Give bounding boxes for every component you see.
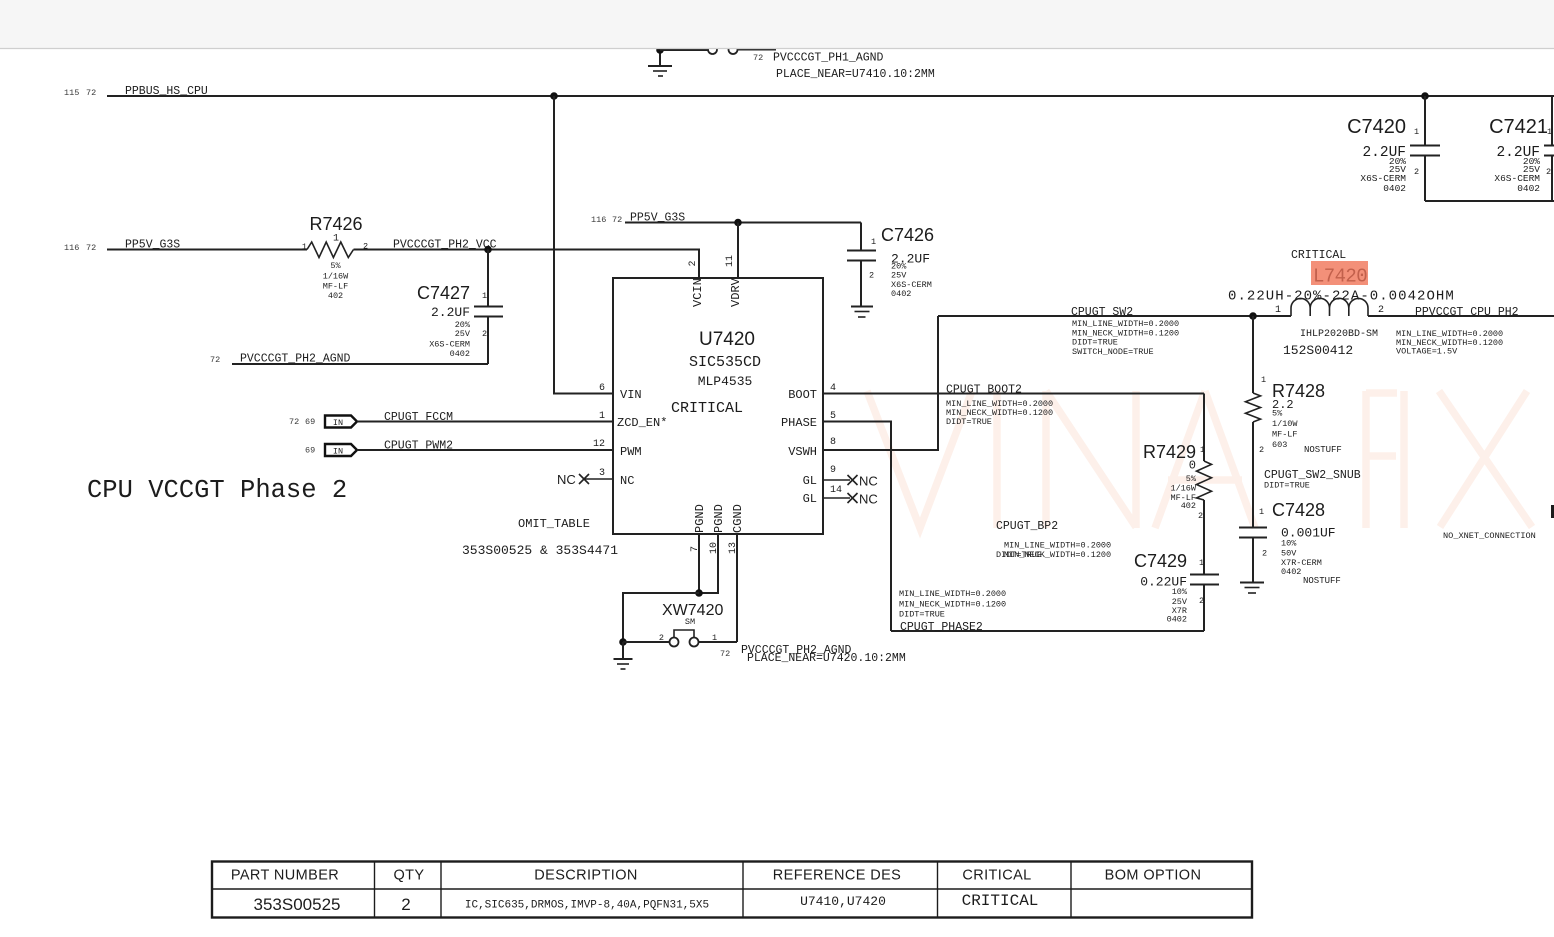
svg-text:2: 2 — [1259, 445, 1264, 455]
svg-text:0402: 0402 — [1281, 567, 1301, 577]
wire (inductor to PPVCCGT_CPU_PH2) — [1368, 315, 1554, 317]
no-connect pin 3 — [557, 472, 613, 487]
svg-text:0402: 0402 — [891, 289, 911, 299]
svg-text:CRITICAL: CRITICAL — [962, 892, 1039, 910]
svg-text:1: 1 — [1275, 305, 1281, 316]
pin 4 BOOT (right) — [788, 383, 836, 402]
node PVCCCGT_PH2_AGND (left) — [210, 353, 351, 366]
svg-text:1: 1 — [1414, 127, 1419, 137]
pin 12 PWM (left) — [593, 439, 642, 459]
svg-text:2: 2 — [1198, 511, 1203, 521]
svg-text:2: 2 — [482, 329, 487, 339]
junction (XW7420 ground node) — [619, 638, 627, 646]
svg-text:SIC535CD: SIC535CD — [689, 354, 761, 371]
node CPUGT_SW2 — [1071, 306, 1179, 357]
wire (junction down to VDRV pin 11) — [737, 223, 739, 279]
wire (PHASE left leg down) — [823, 422, 891, 632]
svg-text:2: 2 — [659, 633, 664, 643]
svg-text:MIN_NECK_WIDTH=0.1200: MIN_NECK_WIDTH=0.1200 — [1004, 550, 1111, 560]
svg-text:50V: 50V — [1281, 549, 1297, 559]
svg-text:IC,SIC635,DRMOS,IMVP-8,40A,PQF: IC,SIC635,DRMOS,IMVP-8,40A,PQFN31,5X5 — [465, 900, 709, 912]
svg-text:IN: IN — [333, 447, 343, 457]
node CPUGT_BOOT2 — [946, 384, 1053, 428]
pin 13 CGND (bottom) — [728, 504, 745, 554]
wire (top ground to jumper XW7410) — [660, 49, 708, 51]
node PP5V_G3S (upper) — [591, 212, 685, 226]
svg-text:REFERENCE DES: REFERENCE DES — [773, 868, 901, 884]
svg-text:BOM OPTION: BOM OPTION — [1105, 868, 1202, 884]
svg-text:X6S-CERM: X6S-CERM — [429, 340, 470, 350]
wire (PP5V_G3S to R7426) — [107, 249, 307, 251]
svg-text:OMIT_TABLE: OMIT_TABLE — [518, 517, 590, 531]
svg-text:GL: GL — [803, 474, 817, 488]
ground (C7428) — [1240, 583, 1264, 594]
svg-text:VIN: VIN — [620, 388, 642, 402]
wire (C7427 to PVCCCGT_PH2_AGND) — [232, 363, 488, 365]
svg-text:CPUGT_BOOT2: CPUGT_BOOT2 — [946, 384, 1022, 397]
svg-text:72: 72 — [753, 53, 763, 63]
svg-text:PGND: PGND — [693, 504, 707, 533]
resistor R7426 — [302, 214, 368, 301]
svg-text:MIN_LINE_WIDTH=0.2000: MIN_LINE_WIDTH=0.2000 — [1004, 541, 1111, 551]
svg-text:0: 0 — [1189, 459, 1196, 473]
node PVCCCGT_PH1_AGND — [753, 52, 935, 82]
wire CPUGT_SW2 — [938, 315, 1291, 317]
capacitor C7426 — [847, 223, 934, 307]
capacitor C7429 — [1134, 551, 1219, 631]
svg-text:C7427: C7427 — [417, 283, 470, 303]
svg-text:2: 2 — [1262, 549, 1267, 559]
svg-text:DIDT=TRUE: DIDT=TRUE — [946, 417, 992, 427]
svg-text:VCIN: VCIN — [691, 278, 705, 307]
svg-text:1: 1 — [1199, 558, 1204, 568]
svg-text:2: 2 — [1546, 167, 1551, 177]
op-amp U7420 (DrMOS IC body) — [613, 278, 823, 534]
svg-text:NO_XNET_CONNECTION: NO_XNET_CONNECTION — [1443, 531, 1536, 541]
svg-text:8: 8 — [830, 437, 836, 448]
pin 10 PGND (bottom) — [709, 504, 726, 554]
svg-text:14: 14 — [830, 485, 842, 496]
ground (top, PVCCCGT_PH1_AGND) — [648, 50, 672, 76]
svg-text:10%: 10% — [1281, 539, 1297, 549]
wire (PGND pin 10 down) — [699, 534, 718, 593]
svg-text:QTY: QTY — [393, 868, 424, 884]
svg-text:10%: 10% — [1172, 587, 1188, 597]
svg-text:VDRV: VDRV — [729, 277, 743, 307]
svg-text:116: 116 — [591, 215, 606, 225]
wire PP5V_G3S (upper) — [625, 222, 861, 224]
svg-text:CPUGT_SW2: CPUGT_SW2 — [1071, 306, 1133, 319]
svg-text:402: 402 — [1181, 501, 1196, 511]
svg-text:PART NUMBER: PART NUMBER — [231, 868, 339, 884]
svg-text:3: 3 — [599, 468, 605, 479]
svg-text:CRITICAL: CRITICAL — [671, 400, 743, 417]
svg-text:ZCD_EN*: ZCD_EN* — [617, 416, 667, 430]
junction (PGND pins) — [695, 589, 703, 597]
pin 5 PHASE (right) — [781, 411, 836, 430]
svg-text:2: 2 — [1378, 305, 1384, 316]
svg-text:IN: IN — [333, 418, 343, 428]
wire (PGND pin 7 down) — [698, 534, 700, 593]
wire (PGND junction left and down to ground) — [623, 593, 699, 642]
junction (SW2 to snubber) — [1249, 312, 1257, 320]
svg-text:VSWH: VSWH — [788, 445, 817, 459]
svg-text:NOSTUFF: NOSTUFF — [1303, 576, 1341, 586]
svg-text:PGND: PGND — [712, 504, 726, 533]
svg-text:115: 115 — [64, 88, 79, 98]
svg-text:R7426: R7426 — [309, 214, 362, 234]
junction PPBUS to VIN — [550, 92, 558, 100]
svg-text:CGND: CGND — [731, 504, 745, 533]
pin 8 VSWH (right) — [788, 437, 836, 459]
resistor R7429 — [1143, 394, 1212, 575]
svg-text:L7420: L7420 — [1313, 266, 1367, 288]
node PPVCCGT_CPU_PH2 — [1396, 306, 1519, 357]
svg-text:25V: 25V — [455, 329, 471, 339]
svg-text:4: 4 — [830, 383, 836, 394]
svg-text:SWITCH_NODE=TRUE: SWITCH_NODE=TRUE — [1072, 347, 1154, 357]
wire (IN to ZCD_EN*) — [357, 421, 613, 423]
svg-text:C7429: C7429 — [1134, 551, 1187, 571]
svg-text:NC: NC — [557, 472, 576, 487]
svg-text:MF-LF: MF-LF — [1272, 430, 1298, 440]
jumper XW7420 — [659, 602, 724, 647]
svg-text:2: 2 — [1199, 596, 1204, 606]
svg-text:5%: 5% — [330, 261, 341, 271]
svg-text:MIN_LINE_WIDTH=0.2000: MIN_LINE_WIDTH=0.2000 — [1072, 319, 1179, 329]
svg-text:U7420: U7420 — [699, 329, 755, 350]
svg-text:72: 72 — [612, 215, 622, 225]
svg-text:0402: 0402 — [1517, 183, 1540, 194]
svg-text:PVCCCGT_PH1_AGND: PVCCCGT_PH1_AGND — [773, 52, 884, 65]
svg-text:11: 11 — [725, 255, 736, 267]
svg-text:CRITICAL: CRITICAL — [1291, 249, 1346, 262]
wire (PPBUS down to VIN) — [554, 96, 613, 394]
pin 3 NC (left) — [599, 468, 634, 488]
jumper XW7410 (partially cut by header band) — [708, 45, 738, 54]
pin 11 VDRV (top) — [725, 255, 743, 307]
svg-text:0402: 0402 — [450, 349, 470, 359]
wire (VSWH up to switch node) — [823, 316, 938, 450]
svg-text:CPU VCCGT Phase 2: CPU VCCGT Phase 2 — [87, 476, 347, 505]
svg-text:0402: 0402 — [1383, 183, 1406, 194]
svg-text:CRITICAL: CRITICAL — [962, 868, 1031, 884]
capacitor C7421 (cut at right edge) — [1489, 96, 1554, 201]
junction PPBUS to C7420 — [1421, 92, 1429, 100]
node PP5V_G3S (left) — [64, 239, 180, 254]
wire PPBUS_HS_CPU rail — [107, 95, 1554, 97]
ground (XW7420) — [614, 642, 633, 669]
svg-text:353S00525 & 353S4471: 353S00525 & 353S4471 — [462, 543, 618, 558]
svg-text:69: 69 — [305, 417, 315, 427]
svg-text:U7410,U7420: U7410,U7420 — [800, 894, 886, 909]
svg-text:402: 402 — [328, 291, 343, 301]
svg-text:5: 5 — [830, 411, 836, 422]
ground (C7426) — [851, 307, 873, 318]
svg-text:5%: 5% — [1272, 409, 1283, 419]
svg-text:603: 603 — [1272, 440, 1287, 450]
svg-text:C7426: C7426 — [881, 225, 934, 245]
svg-text:1: 1 — [333, 234, 339, 245]
wire (IN to PWM) — [357, 449, 613, 451]
junction (PVCCCGT_PH2_VCC / C7427) — [484, 246, 492, 254]
pin 2 VCIN (top) — [688, 260, 705, 307]
svg-text:1: 1 — [871, 237, 876, 247]
svg-text:C7421: C7421 — [1489, 116, 1548, 138]
svg-text:353S00525: 353S00525 — [254, 895, 341, 914]
wire (jumper to CGND pin 13) — [699, 641, 738, 643]
port IN (CPUGT_FCCM) — [289, 416, 357, 429]
svg-text:NC: NC — [859, 492, 878, 507]
wire (ground dot to jumper) — [623, 641, 670, 643]
svg-text:69: 69 — [305, 446, 315, 456]
svg-text:MF-LF: MF-LF — [323, 282, 349, 292]
svg-text:PHASE: PHASE — [781, 416, 817, 430]
svg-text:DIDT=TRUE: DIDT=TRUE — [1072, 338, 1118, 348]
svg-text:5%: 5% — [1186, 474, 1197, 484]
node PPBUS_HS_CPU — [64, 85, 208, 98]
svg-text:2.2UF: 2.2UF — [431, 305, 470, 320]
capacitor C7427 — [417, 250, 503, 365]
svg-text:0402: 0402 — [1167, 615, 1187, 625]
resistor R7428 — [1246, 316, 1342, 527]
svg-text:1: 1 — [482, 291, 487, 301]
svg-text:72: 72 — [86, 88, 96, 98]
svg-text:152S00412: 152S00412 — [1283, 343, 1353, 358]
wire (CPUGT_PHASE2 bottom rail) — [891, 630, 1204, 632]
svg-text:6: 6 — [599, 383, 605, 394]
svg-text:PLACE_NEAR=U7410.10:2MM: PLACE_NEAR=U7410.10:2MM — [776, 68, 935, 81]
node CPUGT_SW2_SNUB — [1264, 469, 1361, 491]
svg-text:SM: SM — [685, 617, 695, 627]
svg-text:GL: GL — [803, 492, 817, 506]
svg-text:1: 1 — [1261, 375, 1266, 385]
capacitor C7428 — [1239, 500, 1341, 586]
capacitor C7420 — [1347, 96, 1440, 201]
svg-text:2: 2 — [1414, 167, 1419, 177]
svg-text:C7428: C7428 — [1272, 500, 1325, 520]
svg-text:1: 1 — [1259, 507, 1264, 517]
pin 14 GL (right) — [803, 485, 842, 506]
wire (BOOT to R7429 branch) — [823, 393, 1204, 395]
svg-text:NC: NC — [859, 474, 878, 489]
pin 1 ZCD_EN* (left) — [599, 411, 667, 430]
no-connect pin 9 — [823, 474, 878, 489]
node CPUGT_BP2 — [996, 520, 1111, 560]
svg-text:DIDT=TRUE: DIDT=TRUE — [1264, 481, 1310, 491]
svg-text:9: 9 — [830, 465, 836, 476]
svg-text:MIN_LINE_WIDTH=0.2000: MIN_LINE_WIDTH=0.2000 — [899, 589, 1006, 599]
wire (jumper to net label) — [738, 49, 777, 51]
svg-text:VOLTAGE=1.5V: VOLTAGE=1.5V — [1396, 347, 1458, 357]
svg-text:DESCRIPTION: DESCRIPTION — [534, 868, 638, 884]
svg-text:DIDT=TRUE: DIDT=TRUE — [899, 610, 945, 620]
svg-text:MIN_NECK_WIDTH=0.1200: MIN_NECK_WIDTH=0.1200 — [899, 600, 1006, 610]
svg-text:BOOT: BOOT — [788, 388, 817, 402]
junction dot (top ground node) — [656, 46, 664, 54]
svg-text:1/16W: 1/16W — [1170, 484, 1196, 494]
svg-text:PWM: PWM — [620, 445, 642, 459]
svg-text:72: 72 — [289, 417, 299, 427]
svg-text:C7420: C7420 — [1347, 116, 1406, 138]
svg-text:12: 12 — [593, 439, 605, 450]
svg-text:1: 1 — [599, 411, 605, 422]
BOM table — [212, 862, 1252, 918]
inductor L7420 (highlighted) — [1228, 261, 1455, 358]
svg-text:NOSTUFF: NOSTUFF — [1304, 445, 1342, 455]
junction (PP5V to VDRV) — [734, 219, 742, 227]
pin 9 GL (right) — [803, 465, 836, 488]
svg-text:MLP4535: MLP4535 — [698, 374, 753, 389]
port IN (CPUGT_PWM2) — [305, 444, 357, 457]
svg-text:2: 2 — [869, 271, 874, 281]
wire (R7426 to VCIN) — [354, 250, 700, 279]
svg-text:116: 116 — [64, 243, 79, 253]
svg-text:CPUGT_BP2: CPUGT_BP2 — [996, 520, 1058, 533]
svg-text:PLACE_NEAR=U7420.10:2MM: PLACE_NEAR=U7420.10:2MM — [747, 652, 906, 665]
node CPUGT_PHASE2 — [899, 589, 1006, 634]
svg-text:25V: 25V — [891, 271, 907, 281]
node (cut label at right edge) — [1551, 505, 1554, 518]
svg-text:72: 72 — [86, 243, 96, 253]
svg-text:1: 1 — [1547, 127, 1552, 137]
pin 7 PGND (bottom) — [690, 504, 707, 552]
no-connect pin 14 — [823, 492, 878, 507]
svg-text:1/16W: 1/16W — [323, 272, 349, 282]
node PVCCCGT_PH2_AGND (bottom) — [720, 644, 906, 665]
svg-text:IHLP2020BD-SM: IHLP2020BD-SM — [1300, 329, 1378, 340]
svg-text:1: 1 — [1200, 445, 1205, 455]
svg-text:CPUGT_PHASE2: CPUGT_PHASE2 — [900, 621, 983, 634]
svg-text:NC: NC — [620, 474, 634, 488]
svg-text:2: 2 — [401, 895, 410, 914]
svg-text:1: 1 — [302, 242, 307, 252]
svg-text:2: 2 — [688, 260, 699, 266]
svg-text:PPVCCGT_CPU_PH2: PPVCCGT_CPU_PH2 — [1415, 306, 1519, 319]
svg-text:1/10W: 1/10W — [1272, 419, 1298, 429]
pin 6 VIN (left) — [599, 383, 642, 402]
wire (CGND pin 13 down) — [736, 534, 738, 642]
svg-text:72: 72 — [720, 649, 730, 659]
wire (C7420/C7421 bottom rail) — [1425, 200, 1554, 202]
svg-text:72: 72 — [210, 355, 220, 365]
svg-text:0.22UH-20%-22A-0.0042OHM: 0.22UH-20%-22A-0.0042OHM — [1228, 289, 1455, 305]
page header band — [0, 0, 1554, 49]
